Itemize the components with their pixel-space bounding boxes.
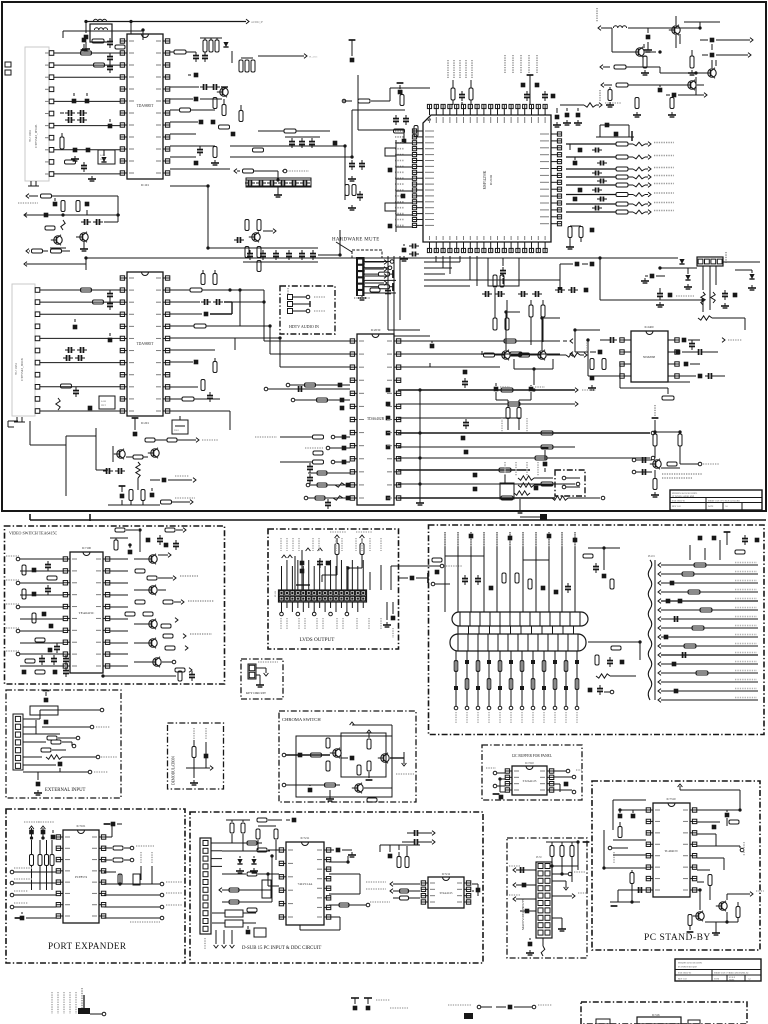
svg-text:X201: X201 — [174, 430, 179, 432]
panel feed top marks — [445, 534, 577, 560]
inductor L102 — [94, 28, 107, 30]
page1 bottom-left tag — [8, 421, 18, 427]
IC7101 PCF8574 — [56, 824, 106, 923]
loop box cluster above QFP right rows — [596, 123, 634, 141]
svg-text:DEMODULATION: DEMODULATION — [172, 756, 176, 785]
resistor R223 vertical — [141, 490, 145, 501]
capacitor C107 pair — [65, 117, 87, 123]
panel right of bus cluster — [588, 642, 640, 695]
capacitor C109 — [71, 148, 79, 161]
capacitor C140 — [53, 198, 58, 206]
svg-text:SHEET 2 OF 3 VIDEO AND PANEL: SHEET 2 OF 3 VIDEO AND PANEL IO — [714, 972, 749, 975]
node AUDIO_OUT arrow — [246, 19, 264, 24]
resistor network right of IC101 row1 — [170, 50, 196, 54]
panel right rows — [658, 563, 758, 703]
resistor R2207 vertical — [668, 98, 676, 118]
D-SUB 15 PC INPUT dashed box — [190, 812, 483, 963]
wires tuner2 to IC201 — [40, 290, 120, 411]
transistor Q2400 lower right — [632, 405, 719, 497]
resistor R221 — [145, 438, 218, 443]
panel bus interconnects — [458, 626, 574, 634]
QFP right row caps — [570, 144, 607, 211]
diode D2201 — [700, 38, 753, 43]
dsub right small IC7212 — [421, 873, 471, 908]
panel lower component field — [454, 651, 579, 724]
wire opamp left — [575, 330, 620, 376]
opamp surrounding: capacitor C2401 — [600, 337, 617, 343]
svg-text:SCH 20231-02: SCH 20231-02 — [678, 973, 691, 975]
inductor L2303 stack — [514, 476, 553, 495]
row9 output — [386, 496, 605, 501]
capacitor C2312 — [721, 290, 737, 308]
svg-text:AUDIO_IF: AUDIO_IF — [251, 21, 264, 24]
video switch output transistors — [125, 528, 214, 673]
zener D101 — [101, 150, 106, 162]
svg-text:KEY CIRCUIT: KEY CIRCUIT — [246, 691, 266, 695]
svg-text:SCH 20231-01: SCH 20231-01 — [672, 500, 685, 502]
row7 output — [398, 468, 530, 477]
capacitor C205 — [73, 319, 78, 329]
svg-text:PL30: PL30 — [536, 856, 542, 859]
diode D2301 — [660, 258, 685, 264]
capacitor C108 — [108, 119, 113, 128]
wire top IC201 up — [24, 258, 660, 270]
second tuner TU 1031 CTF5543_JI01B — [12, 284, 40, 422]
transistor Q2204 — [684, 73, 707, 90]
capacitor bank row y248-262 — [243, 248, 318, 262]
node IF arrow — [258, 54, 318, 59]
diode D220 — [150, 476, 196, 482]
KEY CIRCUIT dashed box — [241, 659, 283, 699]
resistor R2301 vertical below QFP — [493, 275, 504, 287]
IC7212 surroundings — [366, 830, 480, 900]
audio out section top right - input arrow — [597, 8, 700, 30]
svg-text:SHEET 1 OF 3 TV SIGNAL BOARD: SHEET 1 OF 3 TV SIGNAL BOARD — [708, 499, 740, 502]
resistor R2302 vertical set2 — [493, 288, 509, 330]
opamp IC2400 8pin — [620, 325, 679, 382]
vcc cluster above QFP right — [521, 75, 556, 105]
row3 output — [386, 416, 520, 429]
transistor Q201 — [113, 446, 125, 462]
capacitor C220 — [132, 418, 139, 436]
tuner TU 1001 CTF5543_IF01B — [25, 47, 54, 186]
vcc box with capacitor x488 — [488, 258, 519, 286]
dsub bottom resistor array — [212, 910, 266, 948]
IC2030 row3 right — [400, 363, 500, 388]
PL30 right wires — [552, 866, 587, 931]
wire trunk below QFP — [388, 256, 477, 336]
I2C buffer wiring — [486, 768, 583, 799]
transistor Q202 — [148, 448, 159, 458]
svg-text:PHILIPS 20/23/26/32HF5: PHILIPS 20/23/26/32HF5 — [678, 963, 703, 965]
capacitor C110 — [86, 148, 91, 153]
video switch bottom resistor — [103, 671, 195, 681]
panel right top components — [690, 532, 759, 560]
IC7211 right outputs — [300, 902, 390, 930]
page1 title block — [670, 490, 762, 510]
VIDEO SWITCH TEA6415C dashed box — [5, 526, 225, 684]
diode D2310 — [494, 383, 510, 400]
mid-bottom transistors: vertical feeds — [506, 312, 560, 350]
resistor R142 vertical — [76, 201, 80, 212]
resistor R2205 vertical — [606, 87, 614, 107]
resistor R105 vertical — [60, 133, 64, 149]
resistor R119 vertical — [239, 105, 243, 122]
capacitor C122 — [231, 132, 236, 137]
resistor R145 — [45, 226, 55, 230]
CHROMA SWITCH dashed box — [279, 711, 416, 802]
resistor R2402 vertical — [602, 359, 606, 370]
svg-text:TL494CN: TL494CN — [664, 849, 678, 853]
chroma components — [282, 722, 414, 802]
standby right components — [678, 784, 744, 900]
resistor R102 — [115, 45, 125, 49]
capacitor C105 — [72, 93, 90, 103]
LVDS below labels — [280, 602, 396, 638]
ground tuner area — [88, 176, 96, 181]
capacitor C116 — [188, 73, 198, 78]
IC201 TDA9885T — [120, 272, 170, 425]
panel bus rail 1 — [452, 612, 588, 626]
LVDS wires above connector — [282, 560, 364, 612]
svg-text:IC7212: IC7212 — [442, 873, 451, 876]
diode D201 pair — [63, 355, 85, 361]
QFP bottom-left caps — [400, 244, 419, 262]
labels below outputs — [505, 462, 538, 476]
PC STAND-BY dashed box — [592, 781, 760, 950]
standby transistors — [687, 890, 764, 935]
IC2030 TDA6402 body — [350, 328, 401, 505]
ground right area — [211, 160, 219, 165]
resistor R125 — [258, 129, 330, 133]
resistor R211 vertical pair — [201, 270, 217, 285]
resistor R2206 vertical — [633, 98, 641, 118]
resistor R127 vertical — [345, 185, 356, 196]
svg-text:VIDEO SWITCH TEA6415C: VIDEO SWITCH TEA6415C — [9, 531, 57, 536]
wire right trunk — [424, 258, 600, 300]
resistor R213 vertical — [213, 358, 217, 373]
svg-text:IC7310: IC7310 — [667, 797, 677, 801]
panel vertical feed wires — [445, 532, 575, 612]
page3 mid caps — [351, 998, 408, 1010]
wire audio right — [612, 22, 720, 52]
inductor L2302 — [547, 340, 587, 357]
svg-text:LVDS OUTPUT: LVDS OUTPUT — [300, 637, 336, 643]
QFP IC2100 MSP34x0K body — [423, 115, 551, 242]
vcc rail vertical x352 — [349, 40, 356, 62]
svg-text:DATE: DATE — [714, 978, 720, 981]
IC2030 top right rows — [400, 339, 573, 357]
capacitor C222 — [119, 486, 126, 498]
wires tuner to IC101 — [54, 53, 120, 174]
DEMODULATION dashed box — [168, 723, 224, 789]
row2 output — [386, 402, 578, 407]
IF AGC cluster left-mid: input terminal — [18, 194, 118, 203]
resistor R220 — [126, 455, 148, 459]
resistor R2307 vertical — [517, 400, 531, 432]
ground stub col x420 — [416, 390, 424, 505]
diode D2202 — [702, 53, 751, 58]
inductor L220 vertical — [136, 462, 140, 490]
subcluster right-mid R/C x390-420 — [393, 90, 418, 143]
resistor R150 — [234, 169, 309, 178]
ethnic cluster caps mid — [348, 160, 365, 181]
capacitor C2301 pairs below QFP — [482, 291, 542, 297]
transistor Q2202 — [633, 47, 656, 57]
port expander top right cap — [104, 822, 122, 837]
svg-text:FILT: FILT — [100, 158, 105, 161]
audio in resistor R2204 — [600, 83, 687, 102]
IC7100 TEA6415C — [63, 546, 110, 673]
capacitor C211 — [170, 312, 232, 317]
wire below IC201 loop — [30, 421, 108, 496]
IC7211 feedback loops — [247, 874, 360, 912]
LCD PANEL interface big dashed box — [429, 525, 765, 735]
note text right — [662, 474, 702, 478]
PL30 bottom — [526, 938, 545, 956]
capacitor C206 pair — [65, 347, 87, 353]
wire second bus — [63, 31, 143, 40]
resistor R2401 vertical — [590, 359, 594, 370]
svg-text:CHROMA SWITCH: CHROMA SWITCH — [282, 717, 321, 722]
svg-text:NJM2068: NJM2068 — [643, 355, 656, 359]
svg-text:TDA9885T: TDA9885T — [137, 342, 155, 346]
junction dots page2 — [30, 529, 742, 924]
svg-text:PL301: PL301 — [274, 590, 277, 597]
svg-text:TU 1031: TU 1031 — [14, 363, 18, 375]
resistor R2101 vertical above QFP — [451, 80, 455, 105]
inductor L140 vertical — [61, 220, 65, 230]
PL30 left wires — [509, 866, 536, 913]
svg-text:REV 1.02: REV 1.02 — [678, 979, 687, 981]
row6 output — [398, 456, 655, 460]
panel connector PL201 right side — [648, 555, 656, 700]
capacitor C111 — [81, 162, 87, 172]
capacitor C124 — [194, 161, 199, 166]
svg-text:MAIN VIDEO INPUTS: MAIN VIDEO INPUTS — [521, 899, 525, 930]
node junction down from IC101 — [170, 186, 243, 248]
resistor R117 vertical — [222, 99, 226, 116]
resistor R126 — [253, 148, 264, 152]
svg-text:CTF5543_JI01B: CTF5543_JI01B — [20, 357, 24, 381]
svg-text:PC INPUT BOARD: PC INPUT BOARD — [678, 966, 697, 969]
components tuner2-IC201: resistor R201 — [81, 288, 114, 310]
capacitor C2302 right cluster — [555, 287, 588, 293]
IC7310 TL494 body — [646, 797, 697, 897]
capacitor C210 row — [170, 299, 232, 305]
svg-text:I2C BUFFER FOR PANEL: I2C BUFFER FOR PANEL — [512, 754, 552, 758]
capacitor C106 pair — [60, 110, 87, 116]
svg-text:PC STAND-BY: PC STAND-BY — [644, 933, 711, 943]
capacitor C101 — [82, 35, 90, 51]
svg-text:PL201: PL201 — [648, 555, 656, 558]
capacitor C2303 — [560, 262, 594, 267]
transistor cluster x250 y225 — [234, 220, 276, 272]
resistor R106 — [65, 160, 76, 164]
svg-text:TEA6415C: TEA6415C — [79, 611, 95, 615]
black cluster right of opamp — [676, 349, 718, 366]
terminal arrows right of trunk — [722, 338, 742, 343]
capacitor C2101 above QFP — [459, 91, 465, 105]
inductor L201 vertical — [56, 398, 60, 410]
audio IF out row — [560, 103, 621, 108]
transistor Q101 — [217, 87, 228, 97]
diode D2203 — [666, 93, 707, 98]
node label midright — [676, 295, 694, 297]
capacitor C141 — [85, 202, 90, 215]
svg-text:HARDWARE MUTE: HARDWARE MUTE — [332, 238, 380, 243]
components right of IC201: resistor R210 — [170, 288, 240, 292]
svg-text:IC101: IC101 — [141, 183, 149, 187]
diode D2302 — [684, 268, 692, 289]
capacitor C212 — [170, 360, 198, 365]
svg-text:PHILIPS 20/23/26/32HF5: PHILIPS 20/23/26/32HF5 — [672, 492, 698, 495]
wire bottom rail cluster — [108, 500, 160, 505]
page3 left dark node — [78, 995, 106, 1016]
resistor R143 — [26, 249, 48, 254]
QFP right pins — [540, 132, 562, 226]
LVDS labels top — [281, 538, 381, 551]
svg-text:PCF8574: PCF8574 — [75, 875, 87, 879]
EXTERNAL INPUT dashed box — [6, 690, 121, 798]
wire opamp bottom loop — [620, 364, 690, 400]
svg-text:IC7101: IC7101 — [77, 824, 87, 828]
cluster below IC201: crystal box — [172, 416, 188, 434]
capacitor C2201 — [644, 28, 652, 52]
svg-text:IC7100: IC7100 — [82, 546, 92, 550]
wire audio join — [676, 35, 712, 95]
I2C BUFFER FOR PANEL dashed box — [482, 745, 582, 800]
svg-text:FILT: FILT — [101, 404, 106, 407]
svg-text:ST2A4C25: ST2A4C25 — [523, 779, 537, 783]
resistor R212 — [170, 324, 240, 328]
transistor Q2201 — [669, 16, 680, 44]
diode array row D150-D155 — [245, 178, 311, 197]
svg-text:CTF5543_IF01B: CTF5543_IF01B — [34, 124, 38, 148]
svg-text:ST2A4C25: ST2A4C25 — [440, 892, 453, 895]
capacitor C133 — [357, 191, 363, 201]
left border ref marks — [5, 62, 11, 75]
resistor R2305 base — [482, 351, 537, 357]
MAIN VIDEO INPUTS dashed box PL30 — [507, 838, 587, 958]
external input connector — [13, 714, 23, 770]
page3 mid resistor row — [448, 1005, 552, 1019]
svg-text:PORT EXPANDER: PORT EXPANDER — [48, 941, 127, 951]
page2 top bold mark — [520, 514, 547, 520]
audio in resistor R2203 — [600, 65, 686, 73]
capacitor C103 cluster between tuner and IC101 — [81, 51, 114, 73]
capacitor C2402 — [590, 350, 602, 355]
panel bus rail 2 — [450, 634, 586, 651]
jack small box — [500, 475, 538, 499]
wire long pin rows IC201 — [170, 338, 235, 350]
svg-text:IC2030: IC2030 — [371, 328, 381, 332]
diode D140 — [81, 215, 118, 225]
capacitor C214 — [170, 380, 213, 403]
port expander pullup resistors — [10, 822, 56, 909]
svg-text:IC7211: IC7211 — [301, 836, 310, 840]
resistor output rows IC2030 right: row1 — [386, 388, 596, 393]
capacitor C2403 — [588, 376, 596, 390]
svg-text:D-SUB 15 PC INPUT & DDC CIRCUI: D-SUB 15 PC INPUT & DDC CIRCUIT — [242, 946, 321, 951]
svg-text:IF_AGC: IF_AGC — [309, 56, 318, 59]
transistor Q2301 — [499, 350, 510, 360]
hardware mute leader line — [336, 242, 352, 252]
page2 top sheet edge — [30, 514, 766, 521]
external input wiring — [23, 691, 117, 796]
diode D2303 right — [723, 262, 760, 290]
capacitor C121 — [211, 120, 216, 125]
row4 output — [386, 431, 655, 441]
transistor Q2203 — [705, 60, 716, 78]
jack ground — [516, 499, 524, 513]
ground mid — [348, 205, 356, 210]
resistor R101 — [92, 39, 104, 43]
IC2030 left input rows — [255, 383, 350, 509]
wire IC101 pin rows to right — [170, 134, 230, 169]
inductor can L100 — [90, 24, 112, 42]
wire trunk IC101 to QFP — [230, 51, 405, 200]
svg-text:IC2400: IC2400 — [645, 325, 655, 329]
transistor Q140 — [50, 235, 66, 248]
svg-text:NONE: NONE — [729, 980, 735, 982]
LVDS OUTPUT dashed box — [268, 529, 399, 649]
resistor R120 vertical — [213, 147, 217, 158]
resistor R2306 vertical — [496, 400, 510, 432]
capacitor C2406 — [679, 373, 725, 379]
resistor R113 trio vertical — [239, 58, 255, 72]
resistor R141 vertical — [61, 201, 65, 212]
resistor R2303 vertical set3 — [529, 300, 545, 345]
capacitor C130 row — [285, 137, 320, 148]
mute connector column — [352, 250, 391, 300]
capacitor C221 pair — [103, 468, 125, 474]
svg-text:IC2100: IC2100 — [489, 175, 493, 185]
sawfilter box — [98, 150, 115, 164]
QFP top pins — [427, 104, 547, 123]
standby left components — [604, 800, 646, 906]
capacitor C102 — [107, 38, 113, 48]
inductor L101 — [93, 19, 106, 21]
IC7211 74LVC14A — [279, 836, 331, 925]
svg-text:REV 1.02: REV 1.02 — [672, 506, 681, 508]
resistor R2202 vertical — [688, 50, 696, 75]
caps column right of QFP top — [553, 108, 582, 127]
resistor R115 — [170, 108, 215, 112]
QFP right bottom resistors — [566, 226, 594, 249]
PL30 connector 2col — [536, 862, 552, 938]
QFP right output rows — [566, 142, 674, 215]
inductor L2301 vertical — [701, 292, 715, 305]
svg-text:SAW: SAW — [100, 154, 106, 157]
resistor R2201 vertical — [641, 56, 649, 75]
resistor R116 vertical — [213, 97, 217, 109]
capacitor C2404 right of opamp — [682, 338, 700, 350]
resistor trio vertical R110-R112 — [200, 38, 222, 52]
svg-text:TDA9885T: TDA9885T — [137, 104, 155, 108]
svg-text:IC7210: IC7210 — [525, 762, 534, 765]
wire bank to right — [318, 230, 340, 255]
resistor R205 — [61, 384, 80, 397]
capacitor C2310 — [641, 274, 665, 283]
video switch right rows — [110, 528, 138, 666]
headphone jack dashed box — [555, 470, 585, 496]
HDTV AUDIO IN box — [280, 286, 335, 334]
IC7210 ST2A4C25 — [505, 762, 554, 795]
labels above QFP — [448, 55, 537, 78]
sawfilter box 2 — [99, 396, 115, 409]
capacitor C209 — [108, 333, 113, 342]
